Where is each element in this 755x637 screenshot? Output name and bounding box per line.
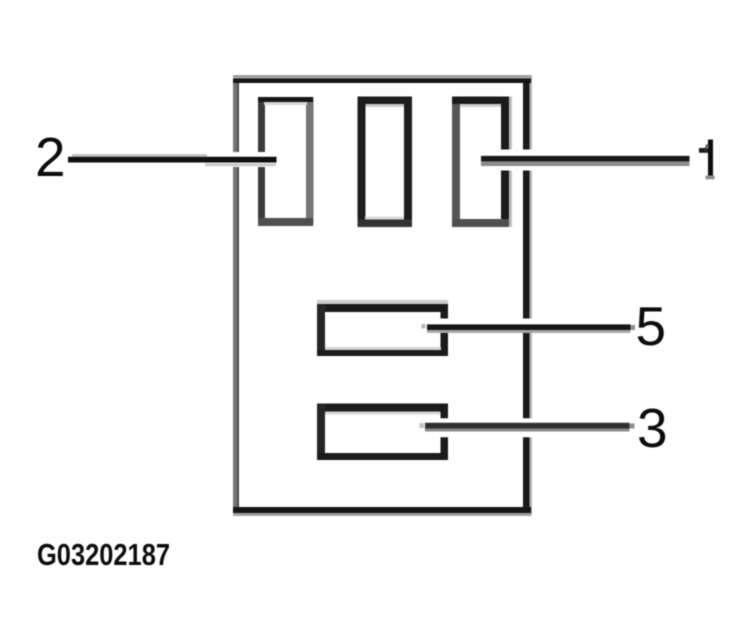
svg-text:2: 2 (35, 126, 66, 188)
svg-text:3: 3 (637, 397, 668, 459)
svg-text:G03202187: G03202187 (37, 537, 170, 572)
svg-text:5: 5 (636, 295, 667, 357)
